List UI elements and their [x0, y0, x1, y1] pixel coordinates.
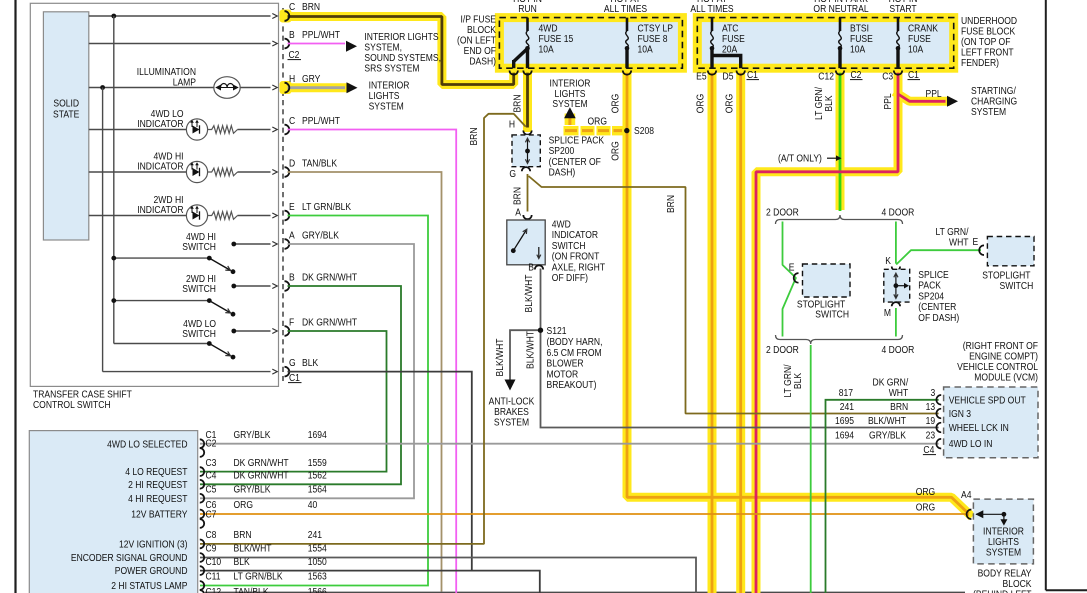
- wire ORG C6 to A4: [200, 514, 969, 515]
- svg-text:PPL/WHT: PPL/WHT: [302, 28, 340, 40]
- pin C3: [200, 467, 204, 476]
- core PPL: [756, 68, 898, 593]
- svg-text:STATE: STATE: [53, 108, 79, 120]
- svg-text:G: G: [289, 356, 296, 368]
- wire BRN C8 to riser: [200, 114, 526, 544]
- svg-text:3: 3: [930, 386, 935, 398]
- svg-text:ENCODER SIGNAL GROUND: ENCODER SIGNAL GROUND: [71, 551, 188, 563]
- svg-text:1695: 1695: [835, 414, 854, 426]
- svg-text:E: E: [973, 235, 979, 247]
- wire LT GRN/BLK pin E riser to C11: [200, 216, 428, 586]
- svg-text:C4: C4: [206, 469, 217, 481]
- svg-text:C1: C1: [908, 68, 919, 80]
- svg-text:POWER GROUND: POWER GROUND: [115, 564, 188, 576]
- wire LT GRN SP204 M down to bracket: [895, 308, 897, 337]
- svg-text:C9: C9: [206, 542, 217, 554]
- svg-text:PPL: PPL: [926, 87, 942, 99]
- wire BLK pin G riser to C10: [288, 372, 472, 571]
- wire LT GRN 2door branch (left): [783, 222, 796, 337]
- svg-text:BLK: BLK: [791, 372, 803, 389]
- core LT GRN BTSI: [839, 68, 842, 211]
- wire PPL/WHT pin C riser: [288, 130, 457, 593]
- pin C7: [200, 519, 204, 528]
- wire LT GRN 4door branch to SP204 K: [895, 222, 897, 264]
- svg-text:C2: C2: [851, 68, 862, 80]
- wire TAN/BLK pin D riser: [288, 172, 442, 592]
- pin C11: [200, 581, 204, 590]
- arrow to anti-lock brakes system: [505, 380, 516, 391]
- svg-text:BLK/WHT: BLK/WHT: [868, 414, 906, 426]
- svg-text:TAN/BLK: TAN/BLK: [234, 585, 270, 593]
- svg-text:E: E: [789, 261, 795, 273]
- svg-text:SYSTEM: SYSTEM: [494, 416, 529, 428]
- svg-text:4WD LO SELECTED: 4WD LO SELECTED: [107, 438, 188, 450]
- connector hook pin C redraw: [285, 11, 290, 21]
- svg-text:OF DASH): OF DASH): [918, 311, 959, 323]
- svg-text:1559: 1559: [308, 456, 327, 468]
- wire ORG ATC E5 (highlighted): [708, 68, 717, 593]
- svg-text:ORG: ORG: [916, 485, 935, 497]
- wire LT GRN/BLK below bottom bracket: [810, 345, 812, 593]
- svg-text:PPL/WHT: PPL/WHT: [302, 114, 340, 126]
- svg-text:SYSTEM: SYSTEM: [986, 546, 1021, 558]
- svg-text:S208: S208: [634, 124, 654, 136]
- indicator lamp 2WD HI: [89, 215, 187, 217]
- svg-text:40: 40: [308, 498, 318, 510]
- svg-text:ORG: ORG: [723, 94, 735, 113]
- wire BRN SP200 G branch to VCM IGN3: [529, 176, 939, 414]
- connector hook pin H redraw: [285, 83, 290, 93]
- svg-text:BLK/WHT: BLK/WHT: [234, 542, 272, 554]
- svg-text:10A: 10A: [638, 43, 654, 55]
- fuse CRANK FUSE 10A: [897, 18, 900, 31]
- interior lights system feed arrow (S208 branch): [565, 114, 576, 126]
- switch 2WD HI: [234, 285, 271, 287]
- svg-text:1566: 1566: [308, 585, 327, 593]
- svg-text:GRY/BLK: GRY/BLK: [302, 229, 340, 241]
- svg-text:BLK/WHT: BLK/WHT: [493, 338, 505, 376]
- node S121: [538, 328, 543, 333]
- I/P fuse block (highlighted): [499, 18, 682, 69]
- wire DK GRN/WHT pin F riser to C3: [200, 331, 387, 472]
- svg-text:G: G: [509, 167, 516, 179]
- svg-text:BREAKOUT): BREAKOUT): [547, 378, 597, 390]
- svg-text:C3: C3: [206, 456, 217, 468]
- svg-text:C2: C2: [289, 48, 300, 60]
- svg-text:E5: E5: [696, 70, 706, 82]
- svg-text:10A: 10A: [850, 43, 866, 55]
- arrow interior lights (pin B): [346, 41, 357, 52]
- wire BRN fuse to SP200 H (highlighted): [523, 49, 532, 128]
- svg-text:C: C: [289, 114, 295, 126]
- svg-text:2 HI STATUS LAMP: 2 HI STATUS LAMP: [111, 579, 187, 591]
- svg-text:1050: 1050: [308, 555, 327, 567]
- svg-text:C: C: [289, 0, 295, 12]
- svg-text:ORG: ORG: [588, 115, 607, 127]
- svg-text:12V BATTERY: 12V BATTERY: [131, 508, 188, 520]
- svg-text:DK GRN/WHT: DK GRN/WHT: [302, 316, 357, 328]
- switch 4WD HI: [234, 243, 271, 245]
- svg-text:SWITCH: SWITCH: [182, 327, 216, 339]
- svg-text:WHT: WHT: [889, 386, 909, 398]
- wire BLK/WHT S121 to VCM pin 19: [541, 330, 939, 427]
- wire lamp to pin H: [240, 87, 271, 89]
- svg-text:10A: 10A: [908, 43, 924, 55]
- svg-text:C11: C11: [206, 570, 221, 582]
- svg-text:SWITCH: SWITCH: [1000, 279, 1034, 291]
- bracket 2door/4door top: [776, 215, 903, 224]
- wire switch feed bus: [113, 16, 115, 344]
- svg-text:241: 241: [840, 400, 854, 412]
- svg-text:OF DIFF): OF DIFF): [552, 271, 588, 283]
- fuse 4WD FUSE 15 10A: [526, 18, 529, 31]
- core ORG CTSY: [627, 68, 969, 514]
- svg-text:PPL: PPL: [881, 93, 893, 109]
- wire DK GRN/WHT VCM pin 3 (817): [826, 400, 939, 593]
- svg-text:C8: C8: [206, 528, 217, 540]
- svg-text:2 DOOR: 2 DOOR: [766, 206, 799, 218]
- svg-text:20A: 20A: [722, 43, 738, 55]
- pin entry arrows: [272, 14, 277, 19]
- svg-text:4 LO REQUEST: 4 LO REQUEST: [125, 465, 188, 477]
- node S208: [624, 128, 629, 133]
- svg-text:241: 241: [308, 528, 322, 540]
- wire BRN SP200 G to 4WD indicator switch A: [527, 174, 529, 212]
- highlight blob pin C: [280, 10, 292, 23]
- fuse ATC FUSE 20A: [711, 18, 714, 31]
- svg-text:TAN/BLK: TAN/BLK: [302, 157, 338, 169]
- svg-text:IGN 3: IGN 3: [949, 407, 971, 419]
- svg-text:BRN: BRN: [234, 528, 252, 540]
- wire DK GRN/WHT pin B riser to C4: [200, 286, 401, 484]
- svg-text:LT GRN/BLK: LT GRN/BLK: [302, 200, 352, 212]
- svg-text:C12: C12: [818, 70, 834, 82]
- svg-text:1564: 1564: [308, 483, 327, 495]
- pin C1: [200, 439, 204, 448]
- arrow to starting/charging system: [947, 96, 958, 107]
- wire PPL branch to starting system (highlighted): [898, 94, 946, 101]
- svg-text:WHEEL LCK IN: WHEEL LCK IN: [949, 421, 1009, 433]
- svg-text:M: M: [884, 306, 891, 318]
- svg-text:FENDER): FENDER): [961, 56, 999, 68]
- svg-text:D: D: [289, 157, 295, 169]
- indicator lamp 4WD HI: [89, 171, 187, 173]
- wire BLK C10 power ground: [200, 571, 540, 593]
- svg-text:SYSTEM: SYSTEM: [369, 100, 404, 112]
- svg-text:SWITCH: SWITCH: [815, 308, 849, 320]
- svg-text:F: F: [289, 316, 294, 328]
- svg-text:BRN: BRN: [511, 94, 523, 112]
- stoplight switch (2 door): [803, 264, 851, 297]
- right page border line: [1045, 0, 1047, 590]
- svg-text:VEHICLE SPD OUT: VEHICLE SPD OUT: [949, 394, 1026, 406]
- pin C10: [200, 566, 204, 575]
- bottom table edge line: [205, 591, 965, 593]
- svg-text:4 HI REQUEST: 4 HI REQUEST: [128, 492, 188, 504]
- splice pack SP200: [523, 131, 531, 135]
- svg-text:C10: C10: [206, 555, 222, 567]
- svg-text:2 HI REQUEST: 2 HI REQUEST: [128, 478, 188, 490]
- svg-text:INDICATOR: INDICATOR: [137, 117, 183, 129]
- connector dashed line C1/C2: [282, 8, 284, 381]
- svg-text:1694: 1694: [835, 429, 854, 441]
- svg-text:SWITCH: SWITCH: [182, 282, 216, 294]
- svg-text:A4: A4: [961, 488, 971, 500]
- node bus1 junction on BRN row: [111, 14, 116, 19]
- pin C9: [200, 553, 204, 562]
- svg-text:INDICATOR: INDICATOR: [137, 203, 183, 215]
- svg-text:ALL TIMES: ALL TIMES: [604, 2, 647, 14]
- wire solid-state to illumination lamp: [89, 87, 215, 89]
- svg-text:ORG: ORG: [609, 141, 621, 160]
- svg-text:BLK: BLK: [822, 95, 834, 112]
- svg-text:OR NEUTRAL: OR NEUTRAL: [813, 2, 868, 14]
- svg-text:12V IGNITION (3): 12V IGNITION (3): [119, 538, 187, 550]
- svg-text:DK GRN/WHT: DK GRN/WHT: [234, 469, 289, 481]
- pin C12: [200, 590, 204, 593]
- wire ORG CTSY fuse down and right to A4 (highlighted): [627, 68, 969, 514]
- svg-text:DASH): DASH): [469, 55, 496, 67]
- svg-text:817: 817: [839, 386, 853, 398]
- pin C8: [200, 540, 204, 549]
- svg-text:(A/T ONLY): (A/T ONLY): [778, 152, 822, 164]
- svg-text:19: 19: [926, 414, 936, 426]
- splice pack SP204: [892, 267, 900, 271]
- svg-text:10A: 10A: [539, 43, 555, 55]
- svg-text:BLK/WHT: BLK/WHT: [524, 331, 536, 369]
- 4WD indicator switch: [523, 215, 531, 219]
- wire solid-state to pin B: [89, 43, 271, 45]
- svg-text:LT GRN/BLK: LT GRN/BLK: [234, 570, 284, 582]
- svg-text:4 DOOR: 4 DOOR: [882, 206, 915, 218]
- svg-text:C3: C3: [882, 70, 893, 82]
- svg-text:4 DOOR: 4 DOOR: [882, 343, 915, 355]
- bracket 2door/4door bottom: [776, 335, 903, 344]
- svg-text:23: 23: [926, 429, 936, 441]
- svg-text:RUN: RUN: [518, 2, 537, 14]
- svg-text:SYSTEM: SYSTEM: [552, 97, 587, 109]
- svg-text:DK GRN/WHT: DK GRN/WHT: [302, 271, 357, 283]
- connector hooks: [285, 11, 290, 21]
- svg-text:DK GRN/WHT: DK GRN/WHT: [234, 456, 289, 468]
- vehicle control module (VCM): [944, 387, 1038, 458]
- svg-text:13: 13: [926, 400, 936, 412]
- solid state module: [43, 12, 88, 240]
- svg-text:BRN: BRN: [511, 187, 523, 205]
- svg-text:D5: D5: [723, 70, 734, 82]
- svg-text:C2: C2: [206, 437, 217, 449]
- fuse BTSI FUSE 10A: [839, 18, 842, 31]
- underhood fuse block (highlighted): [697, 18, 953, 69]
- svg-text:1563: 1563: [308, 570, 327, 582]
- svg-text:ORG: ORG: [916, 501, 935, 513]
- pin C5: [200, 494, 204, 503]
- wire GRY pin H stub (highlighted): [288, 83, 346, 92]
- svg-text:ORG: ORG: [694, 94, 706, 113]
- svg-text:SWITCH: SWITCH: [182, 240, 216, 252]
- svg-text:E: E: [289, 200, 295, 212]
- svg-text:SYSTEM: SYSTEM: [971, 105, 1006, 117]
- svg-text:C1: C1: [747, 68, 758, 80]
- svg-text:BLK: BLK: [302, 356, 319, 368]
- wire BRN pin C to 4WD fuse (highlighted): [288, 17, 527, 85]
- pin C2: [200, 448, 204, 457]
- bottom-right frame line: [1046, 589, 1087, 591]
- internal arrow A4: [976, 513, 1004, 515]
- pin C4: [200, 480, 204, 489]
- svg-text:SRS SYSTEM: SRS SYSTEM: [364, 62, 419, 74]
- wire ORG dashed to S208 (highlighted): [564, 126, 579, 135]
- svg-text:A: A: [289, 229, 295, 241]
- wire ORG ATC D5 (highlighted): [736, 68, 745, 593]
- wire ground bus to pin G: [103, 371, 271, 373]
- svg-text:B: B: [528, 261, 534, 273]
- wire GRY/BLK C1 to VCM pin 23: [200, 443, 939, 445]
- wire GRY/BLK pin A riser to C5: [200, 244, 414, 498]
- transfer case shift control switch connector box: [29, 431, 197, 593]
- svg-text:C4: C4: [923, 443, 934, 455]
- svg-text:K: K: [885, 254, 891, 266]
- svg-text:BRN: BRN: [664, 195, 676, 213]
- svg-text:ALL TIMES: ALL TIMES: [690, 2, 733, 14]
- illumination lamp symbol: [214, 77, 240, 99]
- svg-text:C7: C7: [206, 508, 217, 520]
- highlight blob pin H: [280, 81, 292, 94]
- stoplight switch (4 door): [987, 237, 1034, 266]
- svg-text:CONTROL SWITCH: CONTROL SWITCH: [33, 398, 111, 410]
- fuse CTSY LP FUSE 8 10A: [626, 18, 629, 31]
- svg-text:1562: 1562: [308, 469, 327, 481]
- svg-text:2 DOOR: 2 DOOR: [766, 343, 799, 355]
- switch 4WD LO: [234, 330, 271, 332]
- svg-text:BLK/WHT: BLK/WHT: [522, 274, 534, 312]
- wire lamp ground bus: [102, 88, 104, 372]
- node bus2 junction on lamp row: [100, 85, 105, 90]
- svg-text:A: A: [515, 206, 521, 218]
- svg-text:DASH): DASH): [549, 166, 576, 178]
- wire PPL/WHT pin B stub: [288, 43, 346, 45]
- left page border line: [14, 0, 16, 593]
- svg-text:C5: C5: [206, 483, 217, 495]
- svg-text:GRY: GRY: [302, 72, 321, 84]
- wire solid-state to pin C: [89, 15, 271, 17]
- wire PPL crank fuse down-left-down (highlighted): [756, 68, 898, 593]
- pin C6: [200, 510, 204, 519]
- svg-text:WHT: WHT: [949, 236, 969, 248]
- svg-text:LAMP: LAMP: [173, 76, 196, 88]
- svg-text:MODULE (VCM): MODULE (VCM): [974, 371, 1038, 383]
- wire LT GRN/WHT K to right stoplight switch: [896, 250, 981, 264]
- svg-text:B: B: [289, 28, 295, 40]
- svg-text:GRY/BLK: GRY/BLK: [234, 428, 272, 440]
- svg-text:1694: 1694: [308, 428, 327, 440]
- svg-text:B: B: [289, 271, 295, 283]
- transfer case shift control switch box: [30, 3, 278, 386]
- arrow interior lights (pin H): [347, 82, 358, 93]
- wire BLK/WHT C9 encoder signal ground: [200, 558, 696, 593]
- svg-text:H: H: [509, 118, 515, 130]
- core GRY stub: [288, 86, 346, 89]
- core BRN pin C path: [288, 17, 527, 85]
- core ORG D5: [739, 68, 742, 593]
- wire LT GRN BTSI C12 (highlighted): [836, 68, 845, 205]
- svg-text:BRN: BRN: [467, 127, 479, 145]
- svg-text:BRN: BRN: [890, 400, 908, 412]
- svg-text:1554: 1554: [308, 542, 327, 554]
- svg-text:INDICATOR: INDICATOR: [137, 160, 183, 172]
- svg-text:H: H: [289, 72, 295, 84]
- svg-text:BRN: BRN: [302, 0, 320, 12]
- svg-text:GRY/BLK: GRY/BLK: [234, 483, 272, 495]
- indicator lamp 4WD LO: [89, 129, 187, 131]
- core ORG E5: [711, 68, 714, 593]
- svg-text:START: START: [889, 2, 916, 14]
- svg-text:ORG: ORG: [234, 498, 253, 510]
- svg-text:(BEHIND LEFT: (BEHIND LEFT: [973, 588, 1032, 593]
- wire BLK/WHT S121 branch to ABS: [510, 330, 541, 379]
- svg-text:4WD LO IN: 4WD LO IN: [949, 437, 993, 449]
- svg-text:GRY/BLK: GRY/BLK: [869, 429, 907, 441]
- svg-text:BLK: BLK: [234, 555, 251, 567]
- svg-text:ORG: ORG: [609, 94, 621, 113]
- svg-text:C12: C12: [206, 585, 222, 593]
- svg-text:C1: C1: [289, 371, 300, 383]
- wire BLK/WHT indicator switch B to S121: [540, 269, 542, 331]
